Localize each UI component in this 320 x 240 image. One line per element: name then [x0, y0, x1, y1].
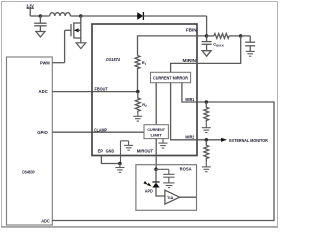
svg-text:EP: EP — [98, 148, 104, 153]
block CURRENT LIMIT — [144, 125, 168, 139]
inductor L1 — [40, 13, 80, 16]
node N1 junction — [39, 14, 43, 18]
svg-text:ADC: ADC — [39, 89, 48, 94]
capacitor C3 (in ROSA) — [156, 169, 175, 183]
svg-text:CLAMP: CLAMP — [94, 128, 107, 133]
wire MIR2 external — [197, 139, 222, 141]
resistor R2 — [135, 92, 140, 113]
ground for R4 — [202, 122, 211, 132]
node N2 junction — [79, 14, 83, 18]
svg-text:R1: R1 — [142, 60, 147, 66]
wire APD to TIA — [156, 188, 165, 197]
wire top rail to diode — [81, 15, 138, 17]
svg-text:MIROUT: MIROUT — [137, 148, 154, 153]
transistor Q1 (N-channel MOSFET) — [65, 16, 81, 63]
wire mirror leg to MIR2 — [171, 83, 197, 140]
capacitor C2 — [241, 36, 256, 52]
photodiode APD — [155, 169, 157, 182]
svg-text:CURRENT: CURRENT — [147, 127, 165, 132]
wire mirror leg to MIR1 — [182, 83, 197, 102]
ground for C2 — [246, 51, 255, 56]
controller U1 DS1874 box — [92, 24, 197, 156]
wire FBIN internal to R1 — [138, 36, 207, 56]
capacitor C1 — [34, 16, 46, 32]
svg-text:ADC: ADC — [41, 219, 50, 224]
ground for C3 — [163, 183, 174, 188]
node EP/GND junction — [118, 162, 122, 166]
ground (triangle) for C1 — [36, 32, 45, 38]
svg-text:FBOUT: FBOUT — [95, 87, 109, 92]
ground (triangle) for Q1 — [76, 43, 86, 49]
svg-text:PWM: PWM — [40, 60, 50, 65]
svg-text:3.3V: 3.3V — [26, 4, 34, 9]
wire mirror leg to CURRENT LIMIT — [155, 83, 157, 125]
svg-text:CURRENT MIRROR: CURRENT MIRROR — [153, 75, 188, 80]
wire MIRIN — [197, 36, 241, 64]
wire TIA output — [180, 196, 197, 198]
svg-text:FBIN: FBIN — [186, 28, 197, 33]
svg-text:MIRIN: MIRIN — [183, 58, 197, 63]
svg-text:MIR1: MIR1 — [185, 97, 195, 102]
supply 3.3V — [27, 8, 41, 16]
wire MIROUT from current limit — [155, 139, 157, 170]
ground for R2 — [133, 113, 142, 121]
svg-text:EXTERNAL MONITOR: EXTERNAL MONITOR — [229, 138, 268, 143]
resistor R4 (MIR1) — [204, 102, 209, 122]
wire GPIO to CLAMP — [52, 131, 144, 133]
resistor R3 (series) — [207, 34, 241, 39]
svg-text:DS1874: DS1874 — [106, 57, 120, 62]
svg-text:APD: APD — [145, 189, 153, 194]
ground (triangle) for CBULK — [202, 51, 211, 57]
diode D1 — [137, 12, 143, 20]
ground for EP/GND — [115, 164, 124, 173]
node MIR1 junction — [205, 100, 209, 104]
svg-text:CBULK: CBULK — [213, 42, 224, 48]
resistor R1 — [135, 56, 140, 71]
svg-text:GPIO: GPIO — [37, 130, 48, 135]
wire FBIN drop — [206, 16, 208, 36]
op-amp TIA — [165, 190, 180, 204]
svg-text:TIA: TIA — [167, 196, 174, 200]
ground for current limit — [159, 139, 168, 149]
module ROSA box — [136, 165, 197, 211]
wire R1 to node — [137, 71, 139, 92]
resistor R5 (MIR2) — [204, 140, 209, 162]
wire MIRIN internal — [171, 63, 197, 72]
svg-text:ROSA: ROSA — [180, 167, 192, 172]
wire PWM — [52, 62, 64, 64]
svg-text:LIMIT: LIMIT — [151, 133, 163, 138]
ground for R5 — [202, 162, 211, 172]
wire diode to FBIN drop — [143, 15, 206, 17]
light arrows into APD — [143, 181, 148, 185]
node MIROUT junction — [154, 168, 158, 172]
svg-text:GND: GND — [106, 148, 115, 153]
svg-text:DS4830: DS4830 — [22, 170, 35, 175]
wire ADC to FBOUT — [52, 91, 138, 93]
microcontroller U2 DS4830 box — [7, 57, 53, 225]
arrow EXTERNAL MONITOR — [221, 138, 227, 142]
block CURRENT MIRROR — [151, 72, 191, 82]
capacitor CBULK — [202, 36, 212, 51]
wire EP to ground — [101, 156, 120, 164]
svg-text:MIR2: MIR2 — [185, 135, 195, 140]
node MIR2 junction — [205, 138, 209, 142]
svg-text:R2: R2 — [142, 102, 147, 108]
wire ADC bottom rail — [52, 102, 274, 221]
node MIRIN junction — [239, 34, 243, 38]
node FBOUT junction — [136, 90, 140, 94]
ground for GND pin (internal) — [121, 141, 134, 164]
node FBIN/CBULK junction — [205, 34, 209, 38]
